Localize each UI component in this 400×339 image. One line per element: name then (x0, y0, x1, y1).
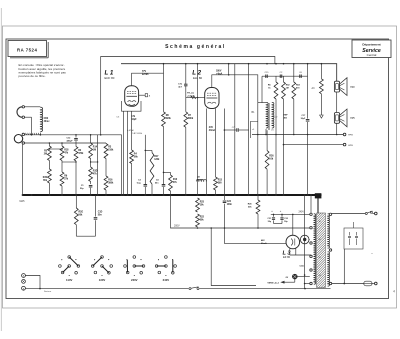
svg-text:210k: 210k (108, 150, 114, 152)
note paragraph (19, 63, 67, 78)
rectifier tube L3 (286, 235, 300, 249)
svg-text:C7b: C7b (178, 83, 183, 85)
svg-text:R9: R9 (64, 176, 68, 178)
svg-text:100n: 100n (227, 204, 233, 206)
resistor R10 (163, 172, 178, 195)
motor symbol M (300, 235, 309, 244)
ground bus (20, 194, 322, 203)
wire column x307.6 (307, 64, 309, 76)
svg-text:6V: 6V (286, 277, 289, 279)
bias feed from 200V rail (210, 227, 256, 285)
power transformer core (317, 213, 326, 288)
svg-text:120k: 120k (154, 159, 160, 161)
svg-text:C12: C12 (67, 138, 72, 140)
svg-text:R2: R2 (78, 150, 82, 152)
svg-text:+: + (271, 210, 273, 213)
resistor R16 (104, 176, 114, 195)
svg-text:~: ~ (371, 252, 373, 256)
svg-text:0,47µF: 0,47µF (127, 130, 135, 132)
svg-text:470k: 470k (78, 152, 84, 155)
tube L1 pin wires (124, 111, 132, 195)
svg-text:220k: 220k (166, 118, 172, 120)
svg-text:460: 460 (284, 117, 288, 120)
svg-text:R25: R25 (248, 204, 253, 206)
grid stopper wire x197.5 (197, 64, 199, 195)
svg-text:HPB: HPB (348, 135, 353, 137)
svg-text:R2G: R2G (79, 212, 84, 214)
antenna jack (17, 106, 24, 119)
wire column x234.8 (234, 64, 236, 195)
resistor R3D (89, 167, 98, 184)
tube L1 envelope (125, 86, 139, 107)
svg-text:1M: 1M (93, 150, 96, 152)
svg-text:HP2: HP2 (350, 87, 355, 89)
svg-text:R3D: R3D (93, 171, 98, 173)
ground bus drop to transformer (315, 193, 322, 213)
capacitor C2 (280, 72, 284, 78)
grid feed wire AM (25, 133, 122, 136)
svg-text:1M: 1M (286, 88, 289, 90)
svg-text:R10: R10 (173, 179, 178, 181)
svg-text:50n: 50n (155, 183, 159, 185)
voltage selector 220V (124, 256, 145, 282)
svg-text:40mH: 40mH (197, 179, 203, 182)
svg-text:50: 50 (319, 257, 321, 259)
svg-text:R22: R22 (200, 217, 205, 219)
transformer terminals right (329, 213, 331, 285)
pilot lamp (286, 274, 310, 279)
svg-text:16pF: 16pF (131, 119, 137, 121)
svg-text:30µF: 30µF (301, 118, 306, 120)
svg-text:48V: 48V (261, 239, 265, 242)
svg-text:R3: R3 (108, 147, 112, 149)
resistor R14 (89, 135, 98, 167)
loudspeaker HP5 (334, 109, 355, 127)
svg-text:R30: R30 (43, 177, 48, 179)
fuse wire (332, 283, 364, 285)
svg-text:CD2: CD2 (44, 118, 49, 120)
capacitor C3 branch (137, 135, 147, 195)
svg-text:50k: 50k (200, 220, 205, 222)
pickup jack (14, 133, 24, 144)
output line HPB upper (252, 133, 353, 137)
resistor R22 (196, 214, 205, 227)
svg-text:C6: C6 (299, 72, 303, 74)
svg-text:LB: LB (197, 177, 200, 179)
wire from pickup to ground bus (22, 144, 24, 195)
tube L2 anode wire 180V (212, 71, 258, 103)
B+ feed column x257.8 (257, 103, 259, 195)
tube L1 grid cap lead (139, 94, 151, 98)
svg-text:10k: 10k (269, 159, 274, 161)
svg-text:R52: R52 (286, 85, 291, 87)
resistor R2G (74, 195, 83, 236)
svg-text:17k: 17k (131, 116, 136, 118)
svg-text:C17: C17 (302, 115, 307, 117)
svg-text:50µ: 50µ (268, 221, 271, 223)
svg-text:R5: R5 (44, 151, 48, 153)
output line HPB lower (284, 143, 354, 147)
tuner block boundary (101, 57, 275, 135)
resistor R3 (104, 143, 114, 176)
resistor R4 (130, 150, 139, 195)
svg-text:EZ 80: EZ 80 (283, 255, 291, 259)
wire bus to mains column (304, 194, 306, 289)
svg-text:50µ: 50µ (80, 188, 84, 190)
wire column x97.6 (97, 135, 99, 195)
mains plug terminals (22, 274, 26, 291)
svg-text:R17: R17 (154, 156, 159, 158)
svg-text:C4: C4 (156, 179, 160, 182)
svg-text:4n7: 4n7 (178, 85, 182, 88)
svg-text:47k: 47k (93, 173, 98, 176)
svg-text:56: 56 (319, 239, 321, 241)
svg-text:77V: 77V (142, 71, 147, 73)
publisher box Service Central (352, 40, 391, 58)
mains line (27, 288, 331, 293)
mains switch wire (332, 211, 377, 215)
svg-text:0,1µ: 0,1µ (137, 183, 142, 185)
svg-text:470: 470 (296, 87, 300, 90)
resistor R25 (248, 195, 260, 228)
svg-text:TTL (ta: TTL (ta (187, 92, 195, 95)
svg-text:C31: C31 (268, 218, 271, 220)
filter caps common (274, 223, 283, 225)
svg-text:C1D: C1D (98, 212, 103, 214)
svg-text:Secteur: Secteur (44, 290, 51, 293)
svg-text:50µ: 50µ (284, 221, 287, 223)
AVC tie wire 2 (62, 161, 77, 162)
svg-text:Écran: Écran (142, 73, 149, 76)
svg-text:3x: 3x (319, 221, 321, 223)
svg-text:4: 4 (393, 290, 395, 294)
svg-text:R7: R7 (188, 115, 192, 117)
transformer primary top lead (258, 102, 266, 104)
svg-text:C24: C24 (227, 200, 232, 203)
svg-text:B1: B1 (252, 111, 256, 114)
filter capacitor C32 (280, 210, 288, 223)
48V feed wire (225, 228, 287, 245)
tube L2 envelope (205, 88, 219, 109)
svg-text:240V: 240V (299, 212, 305, 214)
svg-text:56k: 56k (134, 157, 139, 159)
wire column x223 (222, 135, 224, 195)
svg-text:240V: 240V (163, 278, 170, 282)
antenna coupling wire (25, 107, 41, 135)
transformer primary bottom wire (305, 283, 310, 285)
svg-text:Central: Central (367, 53, 377, 57)
svg-text:R26: R26 (269, 156, 274, 158)
200V rail (170, 194, 310, 229)
svg-text:C32: C32 (284, 218, 287, 220)
loudspeaker HP2 (334, 78, 355, 96)
mains wiring (25, 276, 40, 289)
AVC tie wire 3 (90, 161, 98, 162)
voltage selector 240V (155, 256, 176, 282)
pickup wire (25, 142, 107, 144)
transformer bottom lead (265, 129, 267, 135)
capacitor C17 (301, 76, 310, 195)
svg-text:VERS L2,L1: VERS L2,L1 (267, 283, 280, 285)
resistor R30 (43, 169, 52, 195)
svg-text:+0,3mA: +0,3mA (187, 95, 195, 98)
resistor R5 (44, 143, 52, 169)
svg-text:REP: REP (284, 115, 289, 117)
svg-text:130V: 130V (99, 278, 106, 282)
resistor R17 branch (145, 150, 161, 195)
feedback wire row (262, 76, 308, 102)
capacitor C6 (299, 72, 303, 78)
svg-text:C2: C2 (280, 72, 284, 74)
choke LB (196, 177, 206, 182)
svg-text:440pF: 440pF (67, 140, 74, 143)
svg-text:R4: R4 (134, 153, 138, 156)
svg-text:R8: R8 (166, 115, 170, 117)
svg-text:a: a (149, 95, 151, 98)
svg-text:R6: R6 (268, 85, 272, 87)
L3 anode lead to 240V (293, 212, 305, 236)
svg-text:220V: 220V (131, 278, 138, 282)
primary tap bracket (250, 122, 257, 139)
wire column x248.6 (248, 64, 250, 195)
screen resistor R8 column (162, 64, 172, 178)
svg-text:1k: 1k (268, 88, 271, 90)
svg-text:110V: 110V (66, 278, 73, 282)
transformer tap labels (319, 221, 321, 277)
voltage selector 130V (91, 256, 112, 282)
coupling capacitor C7b (178, 64, 187, 112)
svg-text:R23: R23 (200, 202, 205, 204)
antenna coil CD2 (40, 107, 50, 135)
svg-text:390: 390 (218, 183, 223, 185)
svg-text:+4mA: +4mA (216, 73, 223, 76)
svg-text:C5: C5 (116, 117, 120, 119)
svg-text:47k: 47k (173, 181, 178, 184)
tube L1 anode wire 77V (132, 71, 164, 86)
grid column wire (121, 135, 123, 195)
power transformer primary winding (314, 214, 316, 284)
wire bus to transformer terminal (310, 194, 312, 213)
svg-text:U1: U1 (271, 130, 274, 132)
svg-text:27k: 27k (64, 179, 69, 181)
L2 cathode column (206, 109, 208, 196)
capacitor C1 electrolytic (80, 185, 92, 195)
svg-text:ECF 80: ECF 80 (105, 76, 115, 80)
svg-text:395k: 395k (108, 183, 114, 185)
svg-text:2M: 2M (44, 154, 47, 156)
inner schematic frame (6, 39, 389, 299)
svg-text:200V: 200V (174, 224, 180, 227)
coupling capacitor C7 (224, 109, 249, 196)
capacitor C4 (155, 178, 165, 195)
tube L1 socket box (122, 101, 142, 111)
svg-text:0,3A: 0,3A (300, 265, 305, 268)
capacitor C24 (223, 195, 233, 228)
wire joining R2G C1D (76, 235, 95, 237)
svg-text:47k: 47k (64, 152, 69, 155)
svg-text:10k: 10k (200, 205, 205, 207)
svg-text:pourvus de ce filtre.: pourvus de ce filtre. (19, 74, 46, 78)
svg-text:Département: Département (362, 43, 380, 47)
svg-text:C15: C15 (265, 72, 270, 74)
tube L1 label (105, 70, 115, 80)
L1 cathode component labels (116, 116, 143, 135)
resistor R13 (214, 109, 223, 196)
svg-text:Schéma général: Schéma général (165, 44, 226, 50)
svg-text:40mc: 40mc (44, 120, 51, 123)
svg-text:50k: 50k (248, 207, 252, 209)
heater tap VERS L2 L1 (267, 279, 294, 285)
resistor R53 column (292, 64, 301, 135)
svg-text:64: 64 (319, 275, 321, 277)
capacitor C15 (265, 72, 270, 78)
HT rail (121, 64, 337, 81)
svg-text:50k: 50k (79, 215, 84, 217)
svg-text:A3: A3 (312, 87, 316, 90)
svg-text:RA 7524: RA 7524 (17, 48, 37, 53)
tube L2 label (192, 70, 202, 80)
model number box RA 7524 (8, 41, 48, 58)
ground symbol speaker net (320, 94, 324, 118)
AVC tie wire 1 (49, 148, 63, 149)
capacitor C1D (94, 195, 103, 236)
tone network A3 (312, 64, 324, 94)
svg-text:HP5: HP5 (350, 118, 355, 120)
wire column x228.7 from rail (228, 64, 230, 75)
svg-text:C1: C1 (81, 185, 85, 187)
resistor R7 (184, 112, 194, 195)
mains inline switch (189, 287, 200, 290)
svg-text:R16: R16 (108, 180, 113, 182)
resistor R52 (282, 76, 291, 195)
page left edge shadow (0, 8, 2, 331)
resistor R18 (60, 143, 69, 172)
transformer terminals left (310, 213, 312, 285)
svg-text:C3: C3 (138, 180, 142, 182)
resistor R9 (60, 172, 69, 195)
resistor R2 (74, 147, 84, 196)
power transformer secondary winding (328, 214, 330, 286)
svg-text:v1: v1 (252, 129, 254, 131)
240V wire (271, 214, 311, 216)
svg-text:50n: 50n (98, 215, 103, 217)
svg-text:MA5: MA5 (20, 200, 26, 203)
svg-text:R13: R13 (218, 180, 223, 182)
tube L2 grid wire (186, 92, 205, 99)
svg-text:R14: R14 (93, 146, 98, 149)
svg-text:60mA: 60mA (261, 242, 267, 245)
voltage selector 110V (59, 256, 80, 282)
resistor R26 (265, 130, 274, 195)
svg-text:180V: 180V (216, 71, 222, 73)
resistor R23 (196, 198, 205, 212)
capacitor C12 (67, 135, 78, 147)
svg-text:24V: 24V (209, 126, 214, 129)
capacitor box drop wire (343, 249, 345, 284)
svg-text:R53: R53 (296, 85, 301, 87)
svg-text:40mA: 40mA (209, 129, 216, 132)
output transformer T1 (252, 102, 289, 131)
speaker common wire (336, 92, 338, 135)
L3 cathode pins (290, 248, 311, 255)
svg-text:R18: R18 (64, 150, 69, 152)
svg-text:+: + (280, 210, 282, 213)
tube L3 label (283, 250, 292, 259)
svg-text:680k: 680k (188, 118, 194, 120)
filter capacitor C31 (268, 210, 276, 223)
svg-text:C-BY 620k: C-BY 620k (132, 133, 143, 135)
svg-text:HPB: HPB (348, 145, 353, 147)
fuse (364, 281, 377, 286)
capacitor filter box (344, 214, 373, 257)
resistor R6 (268, 76, 278, 195)
